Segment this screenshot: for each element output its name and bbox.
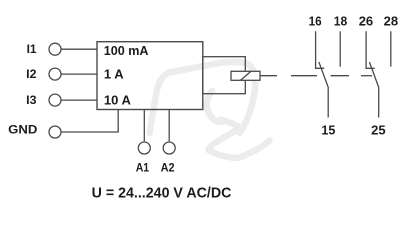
terminal circle A1 — [138, 142, 150, 154]
wire terminal 16 — [316, 31, 325, 68]
terminal circle I1 — [49, 43, 61, 55]
device box U1 — [97, 42, 203, 110]
svg-text:I2: I2 — [26, 68, 37, 81]
wire terminal 18 — [339, 31, 341, 66]
svg-text:I1: I1 — [27, 43, 37, 56]
wire GND — [61, 110, 118, 133]
wire A2 — [168, 110, 170, 142]
wire terminal 28 — [390, 31, 392, 66]
svg-text:26: 26 — [359, 13, 374, 28]
watermark outline — [150, 62, 256, 133]
wire I3 — [61, 99, 97, 101]
watermark zigzag claw — [209, 141, 270, 159]
coil diagonal — [241, 71, 252, 80]
wire terminal 26 — [366, 31, 375, 68]
svg-text:100 mA: 100 mA — [104, 43, 149, 58]
wire I1 — [61, 48, 97, 50]
wire A1 — [143, 110, 145, 142]
relay coil K1 — [231, 71, 260, 80]
svg-text:10 A: 10 A — [104, 92, 132, 107]
mechanical link dashed line — [291, 75, 372, 77]
svg-text:16: 16 — [309, 13, 322, 28]
svg-text:15: 15 — [321, 123, 335, 138]
svg-text:GND: GND — [8, 122, 38, 136]
watermark chevron — [221, 120, 240, 139]
svg-text:I3: I3 — [26, 94, 37, 107]
svg-text:18: 18 — [334, 13, 348, 28]
svg-text:A2: A2 — [161, 161, 175, 175]
output sub-box — [203, 57, 246, 94]
terminal circle A2 — [163, 142, 175, 154]
svg-text:28: 28 — [384, 13, 399, 28]
wire coil to contacts — [260, 75, 277, 77]
svg-text:1 A: 1 A — [104, 66, 124, 81]
svg-text:25: 25 — [371, 123, 386, 138]
watermark inner hook — [207, 91, 224, 122]
contact blade 15 — [319, 62, 328, 118]
wire I2 — [61, 73, 97, 75]
terminal circle I2 — [49, 68, 61, 80]
svg-text:U = 24...240 V AC/DC: U = 24...240 V AC/DC — [92, 185, 232, 201]
terminal circle GND — [49, 126, 61, 138]
contact blade 25 — [369, 62, 378, 118]
terminal circle I3 — [49, 94, 61, 106]
svg-text:A1: A1 — [136, 161, 150, 175]
watermark logo — [150, 62, 270, 158]
